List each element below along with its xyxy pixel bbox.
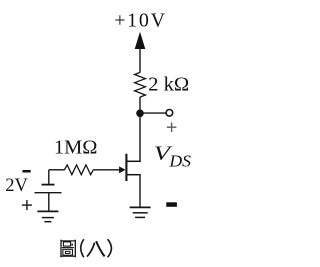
svg-text:2V: 2V bbox=[5, 176, 28, 196]
svg-text:2 kΩ: 2 kΩ bbox=[148, 73, 189, 95]
svg-text:+10V: +10V bbox=[114, 9, 167, 31]
svg-text:1MΩ: 1MΩ bbox=[54, 136, 98, 158]
svg-text:DS: DS bbox=[168, 152, 191, 171]
